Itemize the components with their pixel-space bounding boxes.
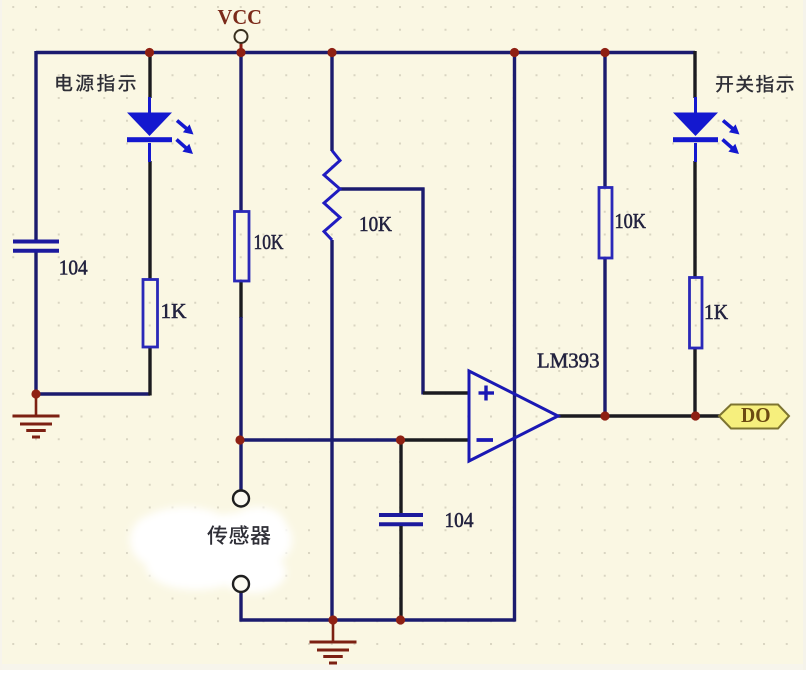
junction J10 bbox=[396, 615, 405, 624]
label 开关指示 bbox=[716, 76, 733, 93]
op-amp U1 minus input marking bbox=[477, 438, 494, 442]
wire RP bottom to ground bus bbox=[330, 240, 333, 620]
potentiometer RP 10K bbox=[324, 151, 340, 241]
wire bottom-left to 1K bbox=[36, 392, 150, 395]
svg-text:VCC: VCC bbox=[218, 5, 263, 29]
wire C2 top stem bbox=[399, 440, 402, 513]
resistor R1 10K bbox=[235, 212, 250, 282]
op-amp U1 plus input marking bbox=[479, 391, 495, 394]
junction J11 bbox=[600, 411, 609, 420]
wire inverting input bus right bbox=[400, 438, 469, 441]
wire sensor bottom bbox=[239, 592, 242, 622]
wire left rail lower bbox=[34, 253, 37, 395]
wire R3 to output bus bbox=[603, 258, 606, 416]
svg-text:1K: 1K bbox=[704, 300, 728, 324]
capacitor C2 bbox=[379, 513, 423, 517]
junction J2 bbox=[236, 48, 245, 57]
wire R2 to ground node bbox=[148, 347, 151, 396]
junction J7 bbox=[235, 435, 244, 444]
resistor R2 1K bbox=[143, 280, 158, 348]
wire LED2 to R5 bbox=[693, 161, 696, 278]
wire left rail upper bbox=[34, 51, 37, 240]
port DO bbox=[719, 405, 789, 429]
wire output bus to DO bbox=[558, 414, 720, 417]
wire RP wiper tap horizontal bbox=[339, 187, 425, 190]
wire op-amp supply column bbox=[513, 51, 516, 622]
wire LED1 to R2 bbox=[148, 161, 151, 280]
op-amp U1 bbox=[469, 371, 558, 461]
LED D1 (power indicator) bbox=[148, 97, 151, 114]
white cloud behind sensor label bbox=[130, 507, 292, 593]
junction J8 bbox=[396, 435, 405, 444]
label 电源指示 bbox=[56, 74, 72, 91]
ground GND2 bbox=[332, 620, 335, 641]
wire top VCC bus bbox=[36, 51, 695, 54]
wire bottom ground bus bbox=[240, 618, 516, 621]
capacitor C1 bbox=[13, 240, 59, 244]
wire inverting input bus left bbox=[241, 438, 401, 441]
wire LED1 anode feed bbox=[148, 51, 151, 98]
resistor R5 1K bbox=[690, 278, 703, 349]
wire R3 feed bbox=[603, 51, 606, 188]
wire to sensor top bbox=[239, 440, 242, 491]
svg-text:10K: 10K bbox=[254, 230, 284, 254]
svg-text:10K: 10K bbox=[359, 212, 392, 236]
power port VCC bbox=[240, 43, 243, 50]
svg-text:DO: DO bbox=[741, 403, 771, 427]
LED D2 (switch indicator) bbox=[694, 97, 697, 114]
wire C2 bottom stem bbox=[399, 526, 402, 620]
junction J12 bbox=[691, 411, 700, 420]
svg-text:10K: 10K bbox=[615, 209, 647, 233]
svg-text:LM393: LM393 bbox=[537, 349, 600, 373]
svg-text:104: 104 bbox=[445, 508, 474, 532]
junction J5 bbox=[600, 48, 609, 57]
label 传感器 bbox=[207, 525, 227, 544]
wire R1 lower lead bbox=[239, 281, 242, 318]
junction J3 bbox=[327, 48, 336, 57]
junction J6 bbox=[31, 389, 40, 398]
junction J1 bbox=[145, 48, 154, 57]
junction J9 bbox=[328, 615, 337, 624]
wire R5 to output bus bbox=[693, 348, 696, 418]
resistor R3 10K bbox=[599, 188, 612, 259]
ground GND1 bbox=[35, 394, 38, 415]
sensor terminal pin 1 bbox=[233, 491, 249, 507]
svg-text:1K: 1K bbox=[161, 299, 187, 323]
wire R1 feed bbox=[239, 51, 242, 212]
sensor terminal pin 2 bbox=[233, 576, 249, 592]
junction J4 bbox=[510, 48, 519, 57]
wire R1 to inverting bus bbox=[239, 317, 242, 440]
wire to op-amp non-inverting input bbox=[423, 391, 469, 394]
svg-text:104: 104 bbox=[59, 256, 88, 280]
wire wiper tap vertical bbox=[421, 188, 424, 395]
wire LED2 anode feed bbox=[693, 51, 696, 98]
wire RP feed bbox=[330, 51, 333, 151]
